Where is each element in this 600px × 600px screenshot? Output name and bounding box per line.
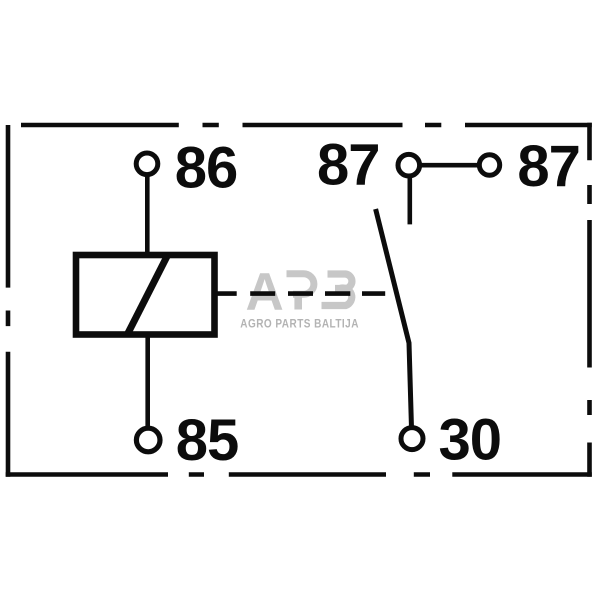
svg-text:85: 85	[176, 408, 239, 473]
terminal circle 87 (left)	[398, 154, 420, 176]
relay outline bottom edge (dash-dot border)	[6, 472, 592, 477]
watermark logo APB	[240, 263, 359, 331]
terminal circle 30	[401, 428, 423, 450]
relay outline top edge (dash-dot border)	[21, 123, 592, 128]
relay outline left edge (dash-dot border)	[6, 125, 11, 477]
svg-text:87: 87	[517, 134, 580, 199]
wire terminal 86 to coil	[145, 175, 150, 253]
coil-to-contact mechanical linkage stub	[217, 291, 237, 296]
relay outline right edge (dash-dot border)	[587, 123, 592, 477]
mechanical linkage dashed line	[250, 291, 385, 296]
svg-text:AGRO PARTS BALTIJA: AGRO PARTS BALTIJA	[240, 318, 359, 331]
wire between the two 87 terminals	[420, 163, 480, 168]
switch blade (movable contact 30-87)	[376, 209, 412, 428]
wire coil to terminal 85	[145, 336, 150, 430]
relay coil K1 (box)	[76, 255, 215, 335]
wire fixed contact 87 (vertical from circle)	[407, 176, 412, 224]
svg-text:87: 87	[317, 133, 380, 198]
coil diagonal stroke	[127, 255, 167, 334]
terminal circle 85	[136, 428, 160, 452]
svg-text:86: 86	[175, 136, 238, 201]
terminal circle 87 (right)	[479, 155, 499, 175]
terminal circle 86	[136, 153, 158, 175]
svg-text:30: 30	[439, 407, 502, 472]
